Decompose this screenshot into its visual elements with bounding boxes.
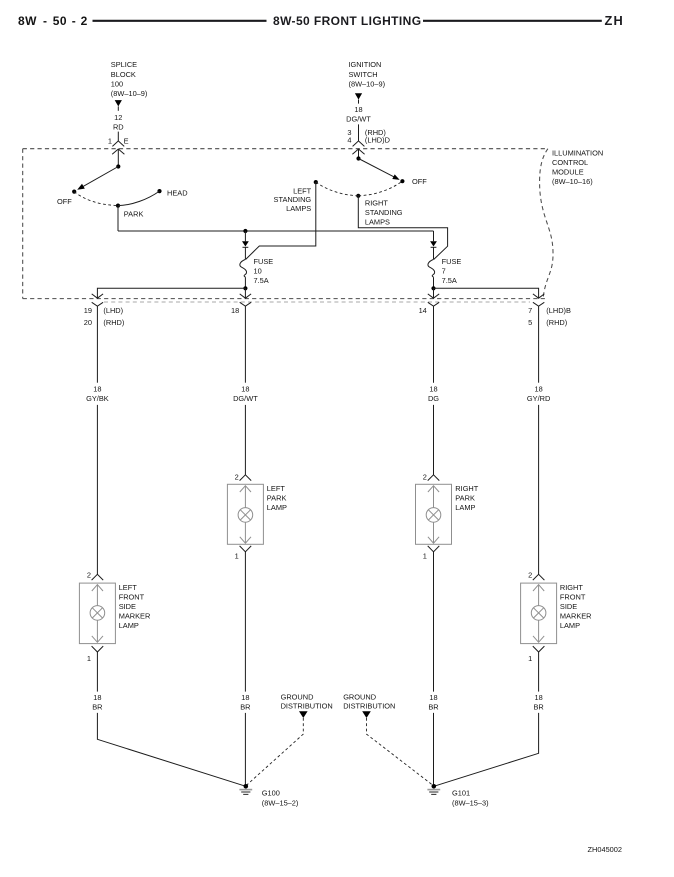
svg-text:SWITCH: SWITCH: [349, 70, 378, 79]
svg-text:SPLICE: SPLICE: [111, 60, 137, 69]
solid travel arc PARK to HEAD: [118, 191, 160, 206]
connector pin14 chevron: [428, 294, 439, 298]
header rule left: [93, 20, 267, 22]
wire arrow to fuse10: [244, 247, 246, 259]
wire chevron to pivot right: [358, 149, 360, 159]
wire right marker lamp down: [538, 652, 540, 692]
wire LEFT STANDING to fuse10: [246, 182, 316, 259]
svg-text:LAMP: LAMP: [267, 503, 287, 512]
lamp left front side marker internals: [90, 585, 105, 643]
wire fuse10 to junction: [244, 277, 246, 288]
module name ILLUMINATION CONTROL MODULE: [552, 148, 603, 186]
svg-text:12: 12: [114, 113, 122, 122]
svg-text:1: 1: [528, 654, 532, 663]
right park lamp pin2 chevron: [428, 475, 440, 481]
svg-text:PARK: PARK: [124, 210, 144, 219]
svg-text:GROUND: GROUND: [281, 693, 314, 702]
svg-text:DISTRIBUTION: DISTRIBUTION: [343, 702, 395, 711]
ground distribution label right: [343, 693, 395, 711]
contact HEAD: [157, 189, 161, 193]
svg-text:(RHD): (RHD): [103, 318, 124, 327]
svg-text:LAMP: LAMP: [455, 503, 475, 512]
fuse10 feed arrow: [242, 241, 249, 246]
node pivot left switch: [116, 164, 120, 168]
svg-text:14: 14: [419, 306, 427, 315]
wire label 18 DG/WT: [346, 105, 371, 124]
lamp left front side marker body: [79, 583, 115, 644]
wire stub below splice triangle: [117, 106, 119, 110]
connector pin7/5 labels: [528, 306, 571, 327]
contact OFF left: [72, 190, 76, 194]
svg-text:MODULE: MODULE: [552, 168, 584, 177]
svg-text:LEFT: LEFT: [267, 484, 286, 493]
svg-text:DG/WT: DG/WT: [233, 394, 258, 403]
fuse F10 element: [240, 259, 247, 277]
svg-text:2: 2: [528, 571, 532, 580]
wire label 18 DG/WT: [233, 385, 258, 404]
contact OFF right: [400, 179, 404, 183]
headlamp switch right wiper arrow: [359, 159, 397, 179]
svg-text:FRONT: FRONT: [560, 592, 586, 601]
svg-text:2: 2: [87, 571, 91, 580]
node fuse7 output junction: [431, 286, 435, 290]
connector pin18 fork: [240, 302, 251, 306]
wire col1 to G100 diagonal: [97, 713, 245, 786]
svg-text:BR: BR: [428, 703, 438, 712]
svg-text:18: 18: [534, 693, 542, 702]
ground distribution label left: [281, 693, 333, 711]
svg-text:DG: DG: [428, 394, 439, 403]
lamp right front side marker body: [521, 583, 557, 644]
connector pin labels 3 4 (RHD)(LHD)D: [347, 128, 390, 144]
wire right park column mid: [433, 405, 435, 475]
wire left marker column mid: [96, 405, 98, 574]
wire label 18 DG: [428, 385, 439, 404]
wire right park lamp down: [433, 552, 435, 692]
node fuse10 output junction: [243, 286, 247, 290]
svg-text:(LHD): (LHD): [103, 306, 123, 315]
svg-text:(RHD): (RHD): [546, 318, 567, 327]
svg-text:7: 7: [442, 267, 446, 276]
svg-text:2: 2: [81, 14, 88, 28]
svg-text:LEFT: LEFT: [293, 186, 312, 195]
svg-text:GY/RD: GY/RD: [527, 394, 550, 403]
svg-text:ZH: ZH: [605, 13, 624, 28]
connector pin19/20 chevron: [92, 294, 103, 298]
contact LEFT STANDING LAMPS: [314, 180, 318, 184]
module box wavy right dashed edge: [540, 149, 553, 299]
svg-text:MARKER: MARKER: [560, 611, 592, 620]
wire label 18 GY/RD: [527, 385, 550, 404]
lamp left park label: [267, 484, 287, 512]
svg-text:GROUND: GROUND: [343, 693, 376, 702]
wire left marker lamp down: [96, 652, 98, 692]
dashed travel arc RIGHT STANDING to OFF: [358, 181, 402, 196]
wire left park lamp down: [244, 552, 246, 692]
ignition feed triangle: [355, 93, 362, 99]
svg-text:18: 18: [93, 385, 101, 394]
wire right marker column mid: [538, 405, 540, 574]
wire pin19 down left marker column: [96, 306, 98, 383]
svg-text:LAMP: LAMP: [119, 621, 139, 630]
svg-text:IGNITION: IGNITION: [349, 60, 382, 69]
svg-text:18: 18: [354, 105, 362, 114]
svg-text:(8W–10–9): (8W–10–9): [111, 89, 148, 98]
module secondary lower dashed line: [104, 301, 530, 303]
ground G100 label: [262, 789, 299, 808]
svg-text:LEFT: LEFT: [119, 583, 138, 592]
connector E female fork: [112, 141, 124, 147]
svg-text:STANDING: STANDING: [274, 195, 312, 204]
svg-text:(LHD)D: (LHD)D: [365, 135, 390, 144]
svg-text:CONTROL: CONTROL: [552, 158, 588, 167]
svg-text:(8W–10–9): (8W–10–9): [349, 79, 386, 88]
ground G100 symbol: [239, 784, 252, 794]
fuse F7 label: [442, 257, 462, 285]
ground distribution pointer left: [299, 711, 308, 718]
svg-text:MARKER: MARKER: [119, 611, 151, 620]
svg-text:1: 1: [423, 552, 427, 561]
svg-text:10: 10: [254, 267, 262, 276]
dashed lead to G101: [367, 718, 434, 786]
ignition switch label: [349, 60, 386, 88]
wire label 18 GY/BK: [86, 385, 109, 404]
ground G101 symbol: [427, 784, 440, 794]
header rule right: [423, 20, 602, 22]
svg-text:BR: BR: [533, 703, 543, 712]
svg-text:OFF: OFF: [412, 177, 427, 186]
contact RIGHT STANDING LAMPS: [356, 194, 360, 198]
wire PARK down: [117, 206, 119, 231]
svg-text:18: 18: [429, 693, 437, 702]
header left page number: [18, 14, 88, 28]
lamp right park label: [455, 484, 478, 512]
left park lamp pin1 fork: [240, 546, 252, 552]
svg-text:SIDE: SIDE: [119, 602, 136, 611]
node pivot right switch: [356, 156, 360, 160]
svg-text:8W-50 FRONT LIGHTING: 8W-50 FRONT LIGHTING: [273, 14, 421, 28]
svg-text:7.5A: 7.5A: [254, 276, 269, 285]
svg-text:G100: G100: [262, 789, 280, 798]
svg-text:1: 1: [235, 552, 239, 561]
svg-text:100: 100: [111, 79, 123, 88]
wire from label to connector D: [358, 124, 360, 140]
wire park bus horizontal: [118, 230, 434, 232]
svg-text:BR: BR: [92, 703, 102, 712]
wire label 18 BR col3: [428, 693, 438, 712]
wire fuse7 to junction: [433, 277, 435, 288]
svg-text:ZH045002: ZH045002: [588, 845, 623, 854]
headlamp switch left wiper arrow: [81, 167, 119, 188]
svg-text:GY/BK: GY/BK: [86, 394, 109, 403]
module box top dashed edge: [23, 148, 547, 150]
wire fuse10 junction to pin19: [97, 288, 245, 298]
wire label 18 BR col4: [533, 693, 543, 712]
svg-text:LAMP: LAMP: [560, 621, 580, 630]
svg-text:2: 2: [423, 472, 427, 481]
svg-text:(8W–10–16): (8W–10–16): [552, 177, 593, 186]
svg-text:DG/WT: DG/WT: [346, 115, 371, 124]
module box left dashed edge: [22, 149, 24, 299]
wire arrow to fuse7: [433, 247, 435, 259]
wire pin18 down left park column: [244, 306, 246, 383]
wire left park column mid: [244, 405, 246, 475]
svg-text:7.5A: 7.5A: [442, 276, 457, 285]
right park lamp pin1 fork: [428, 546, 440, 552]
svg-text:1: 1: [108, 136, 112, 145]
dashed lead to G100: [246, 718, 303, 786]
svg-text:18: 18: [231, 306, 239, 315]
svg-text:OFF: OFF: [57, 197, 72, 206]
svg-text:PARK: PARK: [267, 494, 287, 503]
svg-text:RIGHT: RIGHT: [365, 198, 388, 207]
right marker lamp pin2 chevron: [533, 574, 545, 580]
connector pin19/20 labels: [84, 306, 125, 327]
svg-text:8W: 8W: [18, 14, 37, 28]
lamp right park body: [416, 484, 452, 544]
svg-text:HEAD: HEAD: [167, 188, 188, 197]
wire fuse7 junction to pin7: [434, 288, 539, 298]
splice block feed triangle: [115, 100, 122, 106]
left park lamp pin2 chevron: [240, 475, 252, 481]
svg-text:(8W–15–2): (8W–15–2): [262, 798, 299, 807]
wire label 18 BR col2: [240, 693, 250, 712]
svg-text:(8W–15–3): (8W–15–3): [452, 798, 489, 807]
svg-text:DISTRIBUTION: DISTRIBUTION: [281, 702, 333, 711]
lamp left park body: [227, 484, 263, 544]
connector pin18 chevron: [240, 294, 251, 298]
svg-text:18: 18: [534, 385, 542, 394]
svg-text:E: E: [124, 136, 129, 145]
connector pin7/5 fork: [533, 302, 544, 306]
svg-text:50: 50: [53, 14, 67, 28]
wire from label to connector E: [117, 132, 119, 141]
svg-text:18: 18: [429, 385, 437, 394]
wire RIGHT STANDING to fuse7: [358, 196, 447, 260]
svg-text:(LHD)B: (LHD)B: [546, 306, 571, 315]
contact PARK: [116, 204, 120, 208]
svg-text:20: 20: [84, 318, 92, 327]
svg-text:STANDING: STANDING: [365, 208, 403, 217]
ground G101 label: [452, 789, 489, 808]
lamp left front side marker label: [119, 583, 151, 630]
svg-text:5: 5: [528, 318, 532, 327]
right marker lamp pin1 fork: [533, 646, 545, 652]
svg-text:LAMPS: LAMPS: [286, 204, 311, 213]
svg-text:4: 4: [347, 135, 351, 144]
lamp right park internals: [426, 486, 441, 544]
svg-text:18: 18: [241, 385, 249, 394]
wire fuse7 junction to pin14: [433, 288, 435, 298]
left marker lamp pin1 fork: [92, 646, 104, 652]
lamp right front side marker internals: [531, 585, 546, 643]
connector D male chevron: [352, 149, 364, 154]
svg-text:19: 19: [84, 306, 92, 315]
svg-text:LAMPS: LAMPS: [365, 218, 390, 227]
svg-text:G101: G101: [452, 789, 470, 798]
wire col4 to G101 diagonal: [434, 713, 539, 786]
fuse F10 label: [254, 257, 274, 285]
wire label 12 RD: [113, 113, 124, 132]
svg-text:FUSE: FUSE: [442, 257, 462, 266]
splice block label: [111, 60, 148, 98]
connector pin14 fork: [428, 302, 439, 306]
connector pin7/5 chevron: [533, 294, 544, 298]
wire col2 to G100: [244, 713, 246, 786]
node fuse10 feed junction: [243, 229, 247, 233]
svg-text:RIGHT: RIGHT: [560, 583, 583, 592]
svg-text:SIDE: SIDE: [560, 602, 577, 611]
svg-text:-: -: [43, 14, 47, 28]
left marker lamp pin2 chevron: [92, 574, 104, 580]
lamp left park internals: [238, 486, 253, 544]
fuse7 feed arrow: [430, 241, 437, 246]
svg-text:PARK: PARK: [455, 494, 475, 503]
wire stub below ignition triangle: [358, 100, 360, 104]
wire pin7 down right marker column: [538, 306, 540, 383]
svg-text:2: 2: [235, 472, 239, 481]
svg-text:18: 18: [93, 693, 101, 702]
wire junction to fuse10 arrow: [244, 231, 246, 241]
svg-text:18: 18: [241, 693, 249, 702]
svg-text:FRONT: FRONT: [119, 592, 145, 601]
svg-text:FUSE: FUSE: [254, 257, 274, 266]
connector E male chevron: [112, 149, 124, 154]
dashed travel arc OFF to PARK: [74, 192, 118, 206]
connector D female fork: [353, 141, 365, 147]
svg-text:RIGHT: RIGHT: [455, 484, 478, 493]
wire pin14 down right park column: [433, 306, 435, 383]
svg-text:7: 7: [528, 306, 532, 315]
svg-text:1: 1: [87, 654, 91, 663]
wire chevron to pivot: [117, 149, 119, 167]
wire col3 to G101: [433, 713, 435, 786]
ground distribution pointer right: [362, 711, 371, 718]
wire fuse10 junction to pin18: [244, 288, 246, 298]
svg-text:BR: BR: [240, 703, 250, 712]
connector pin19/20 fork: [92, 302, 103, 306]
lamp right front side marker label: [560, 583, 592, 630]
dashed travel arc LEFT STANDING to RIGHT STANDING: [316, 182, 359, 196]
svg-text:BLOCK: BLOCK: [111, 70, 136, 79]
wire bus to fuse7 arrow: [433, 231, 435, 241]
module box bottom dashed edge: [23, 298, 546, 300]
svg-text:RD: RD: [113, 122, 124, 131]
fuse F7 element: [428, 259, 435, 277]
svg-text:ILLUMINATION: ILLUMINATION: [552, 148, 603, 157]
connector pin labels 1 E: [108, 136, 129, 145]
wire label 18 BR col1: [92, 693, 102, 712]
svg-text:-: -: [72, 14, 76, 28]
